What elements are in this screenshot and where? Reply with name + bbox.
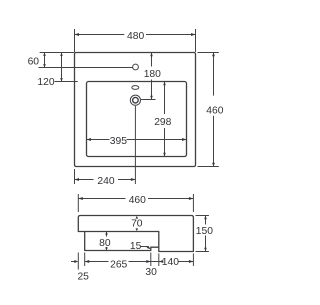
dimension 80 line: [106, 232, 108, 237]
bottom dims extension x84.7: [84, 253, 86, 267]
dimension 70 arrows: [136, 216, 139, 219]
svg-text:150: 150: [196, 226, 213, 237]
elevation body outline: [78, 216, 193, 252]
bottom dims extension x158.8: [158, 253, 160, 266]
dimension 460 elevation extension right: [192, 194, 194, 212]
dimension 60 line: [44, 53, 46, 68]
overflow hole circle: [133, 64, 139, 70]
svg-text:460: 460: [206, 106, 223, 117]
dimension 15 leader: [141, 246, 148, 248]
svg-text:15: 15: [130, 241, 142, 252]
dimension 240 line: [75, 179, 94, 181]
dimension 30 gap line: [151, 261, 159, 263]
dimension 80 arrows: [105, 232, 108, 235]
top-left extension line: [40, 52, 75, 54]
dimension 460 plan extension bottom: [198, 166, 219, 168]
svg-text:480: 480: [127, 31, 144, 42]
dimension 460 plan extension top: [198, 52, 219, 54]
dimension 240 extension left: [74, 169, 76, 184]
dimension 140 line: [159, 261, 162, 263]
svg-text:80: 80: [99, 238, 111, 249]
dimension 120 arrows: [60, 53, 63, 56]
dimension 150 extension top: [196, 215, 209, 217]
dimension 180 arrows: [150, 53, 153, 57]
bottom dims extension x150.8: [150, 253, 152, 267]
faucet hole inner circle: [133, 97, 139, 103]
dimension 150 arrows: [204, 216, 207, 220]
dimension 180 tick at faucet level: [141, 99, 156, 101]
dimension 265 line: [85, 261, 109, 263]
dimension 460 plan arrows: [212, 53, 215, 57]
dimension 480 arrows: [75, 33, 80, 36]
dimension 140 arrows: [159, 260, 164, 263]
svg-text:30: 30: [145, 267, 157, 278]
dimension 460 elevation extension left: [77, 194, 79, 212]
svg-text:120: 120: [37, 77, 54, 88]
dimension 480 extension right: [195, 29, 197, 52]
dimension 15 arrow: [147, 246, 151, 250]
svg-text:70: 70: [131, 219, 143, 230]
centerline wire below faucet: [134, 106, 136, 184]
bottom dims extension x78: [77, 253, 79, 270]
bottom dims extension x193.4: [192, 253, 194, 266]
overflow level line: [39, 67, 133, 69]
dimension 120 extension line: [55, 81, 78, 83]
svg-text:25: 25: [77, 271, 89, 282]
dimension 240 arrows: [75, 178, 80, 181]
dimension 460 elevation arrows: [78, 197, 83, 200]
svg-text:140: 140: [162, 257, 179, 268]
dimension 60 arrows: [43, 53, 46, 56]
soap dish ellipse: [132, 86, 139, 90]
dimension 150 extension bottom: [196, 251, 209, 253]
svg-text:180: 180: [144, 69, 161, 80]
dimension 120 line: [61, 53, 63, 82]
svg-text:460: 460: [129, 195, 146, 206]
dimension 480 line: [75, 34, 125, 36]
plan view: inner basin rect: [87, 82, 187, 157]
dimension 298 line: [164, 82, 166, 115]
svg-text:240: 240: [97, 176, 114, 187]
dimension 150 line: [205, 216, 207, 225]
dimension 460 elevation line: [78, 198, 125, 200]
dimension 480 extension left: [74, 29, 76, 52]
faucet hole outer circle: [130, 95, 140, 105]
dimension 25 tail line: [71, 261, 75, 263]
plan view: outer rim square: [75, 53, 196, 167]
svg-text:265: 265: [110, 259, 127, 270]
dimension 395 line: [87, 139, 110, 141]
dimension 298 arrows: [163, 82, 166, 86]
svg-text:395: 395: [110, 136, 127, 147]
elevation foot outline: [85, 232, 159, 251]
svg-text:60: 60: [28, 57, 40, 68]
dimension 180 line: [151, 53, 153, 67]
svg-text:298: 298: [154, 117, 171, 128]
dimension 265 arrows: [85, 260, 90, 263]
dimension 25 arrow: [74, 260, 78, 263]
dimension 460 plan line: [213, 53, 215, 96]
dimension 395 arrows: [87, 138, 92, 141]
